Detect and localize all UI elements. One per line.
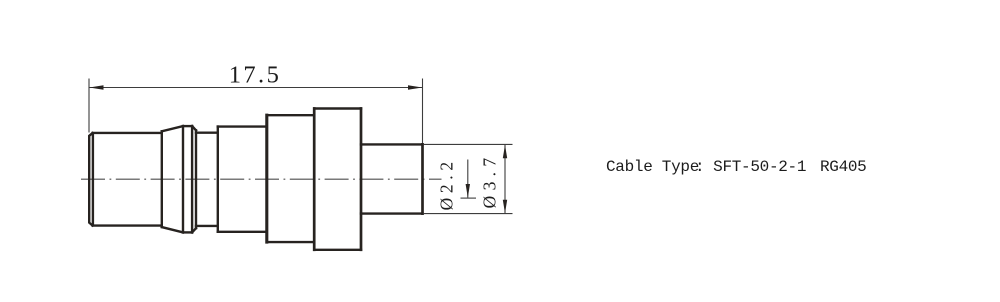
dimension Ø3.7	[424, 144, 513, 213]
arrow down of Ø2.2	[466, 184, 470, 198]
large block right face	[360, 109, 363, 250]
band right chamfer top	[192, 126, 196, 130]
dimension Ø2.2	[461, 160, 477, 199]
arrow up of Ø3.7	[503, 145, 507, 159]
band right chamfer bottom	[192, 228, 196, 232]
dim line	[467, 160, 469, 198]
left cylinder outer end face	[89, 133, 92, 226]
bottom tick	[461, 197, 477, 199]
band bottom edge	[183, 231, 192, 233]
band right face	[191, 126, 193, 232]
dim line	[504, 144, 506, 213]
arrow down of Ø3.7	[503, 200, 507, 214]
cable ferrule right face	[421, 144, 424, 213]
cable ferrule bottom edge	[361, 212, 423, 214]
band top edge	[183, 125, 192, 127]
dimension 17.5	[89, 79, 423, 144]
arrow left of 17.5	[89, 85, 103, 89]
band left face	[182, 126, 184, 232]
svg-text:Cable Type: SFT-50-2-1 RG405: Cable Type: SFT-50-2-1 RG405	[606, 158, 866, 176]
large block bottom edge	[314, 249, 361, 251]
left cylinder inner chamfer line	[92, 135, 94, 224]
hex nut bottom edge	[267, 241, 314, 243]
groove top edge	[196, 131, 218, 133]
left cylinder bottom edge	[93, 224, 162, 226]
groove left face	[195, 130, 197, 228]
hex nut left face	[265, 115, 268, 242]
large block top edge	[314, 107, 361, 109]
step face	[217, 127, 219, 232]
groove bottom edge	[196, 225, 218, 227]
extension line right	[422, 79, 424, 144]
svg-text:Ø3.7: Ø3.7	[479, 158, 499, 209]
left cylinder top edge	[93, 132, 162, 134]
arrow right of 17.5	[408, 85, 422, 89]
dimension line	[89, 87, 423, 89]
taper bottom	[162, 227, 183, 232]
cable ferrule top edge	[361, 143, 423, 145]
extension line left	[88, 79, 90, 133]
section C bottom edge	[218, 231, 267, 233]
section C top edge	[218, 125, 267, 127]
centerline (dash-dot axis)	[81, 178, 442, 180]
large block left face	[313, 109, 316, 250]
svg-text:17.5: 17.5	[229, 62, 281, 89]
svg-text:Ø2.2: Ø2.2	[436, 162, 456, 211]
extension line top	[424, 143, 513, 145]
cylinder end face	[161, 131, 163, 227]
connector body outline	[89, 109, 422, 250]
hex nut top edge	[267, 114, 314, 116]
extension line bottom	[424, 213, 513, 215]
taper top	[162, 126, 183, 131]
